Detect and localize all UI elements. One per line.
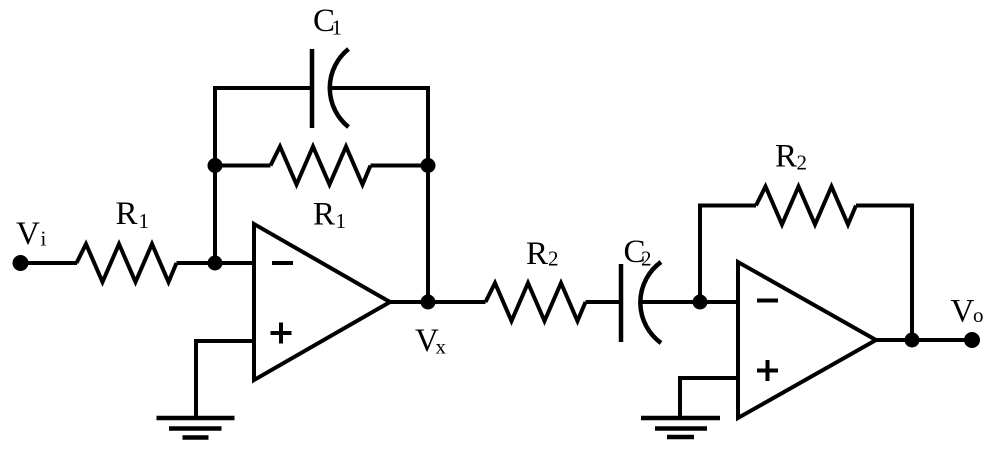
node B junction dot <box>693 295 708 310</box>
label C1 <box>313 3 342 40</box>
wire op-amp U1 noninverting input to ground <box>196 341 254 416</box>
resistor R1 feedback <box>271 147 371 185</box>
wire R1 to op-amp U1 inverting input <box>177 261 255 265</box>
wire C2 to op-amp U2 inverting input <box>641 300 739 304</box>
svg-text:i: i <box>41 227 47 251</box>
wire feedback R2 down to output node <box>856 206 912 341</box>
node dot at U2 output <box>905 333 920 348</box>
wire feedback resistor to right node <box>371 164 429 168</box>
label Vi <box>16 216 47 252</box>
op-amp U2 <box>738 262 876 418</box>
capacitor C2 <box>621 262 661 343</box>
node dot left of feedback resistor R1 <box>208 158 223 173</box>
wire C1 right plate to right feedback rail, down to output node <box>331 88 429 302</box>
label Vx <box>415 323 447 359</box>
label R2 series <box>526 236 559 272</box>
terminal Vo <box>964 332 980 348</box>
svg-text:1: 1 <box>336 209 347 233</box>
label R1 feedback <box>313 197 346 234</box>
resistor R2 series <box>486 283 586 321</box>
wire op-amp U2 noninverting input to ground <box>680 378 738 416</box>
wire node A up to top feedback rail and to C1 left plate <box>215 88 312 263</box>
svg-text:R: R <box>526 236 548 272</box>
wire op-amp U2 output to terminal Vo <box>876 338 972 342</box>
terminal Vi <box>13 255 29 271</box>
wire left node to feedback resistor <box>215 164 271 168</box>
svg-text:V: V <box>16 216 40 252</box>
svg-text:2: 2 <box>797 151 808 175</box>
op-amp U1 plus sign <box>271 323 292 344</box>
node A junction dot <box>208 256 223 271</box>
ground 1 <box>157 418 235 438</box>
svg-text:2: 2 <box>641 247 652 271</box>
node dot right of feedback resistor R1 <box>421 158 436 173</box>
node Vx dot <box>421 295 436 310</box>
svg-text:o: o <box>973 303 984 327</box>
svg-text:R: R <box>313 197 335 233</box>
label R1 series <box>116 196 150 233</box>
wire R2 to C2 <box>586 300 622 304</box>
ground 2 <box>641 418 720 437</box>
resistor R2 feedback <box>756 187 856 225</box>
svg-text:R: R <box>775 139 797 175</box>
wire node B up to feedback resistor R2 <box>700 206 756 303</box>
svg-text:2: 2 <box>548 247 559 271</box>
label C2 <box>624 234 652 271</box>
op-amp U1 <box>254 224 390 380</box>
resistor R1 series <box>77 244 177 282</box>
label Vo <box>951 294 984 330</box>
svg-text:R: R <box>116 196 138 232</box>
svg-text:1: 1 <box>139 209 150 233</box>
svg-text:1: 1 <box>332 16 343 40</box>
op-amp U2 minus sign <box>757 299 778 303</box>
label R2 feedback <box>775 139 807 175</box>
svg-text:V: V <box>951 294 975 330</box>
svg-text:x: x <box>436 335 447 359</box>
op-amp U1 minus sign <box>272 261 293 265</box>
op-amp U2 plus sign <box>757 360 778 381</box>
wire Vi to R1 <box>21 261 78 265</box>
capacitor C1 <box>312 49 349 128</box>
wire op-amp U1 output to R2 <box>390 300 486 304</box>
